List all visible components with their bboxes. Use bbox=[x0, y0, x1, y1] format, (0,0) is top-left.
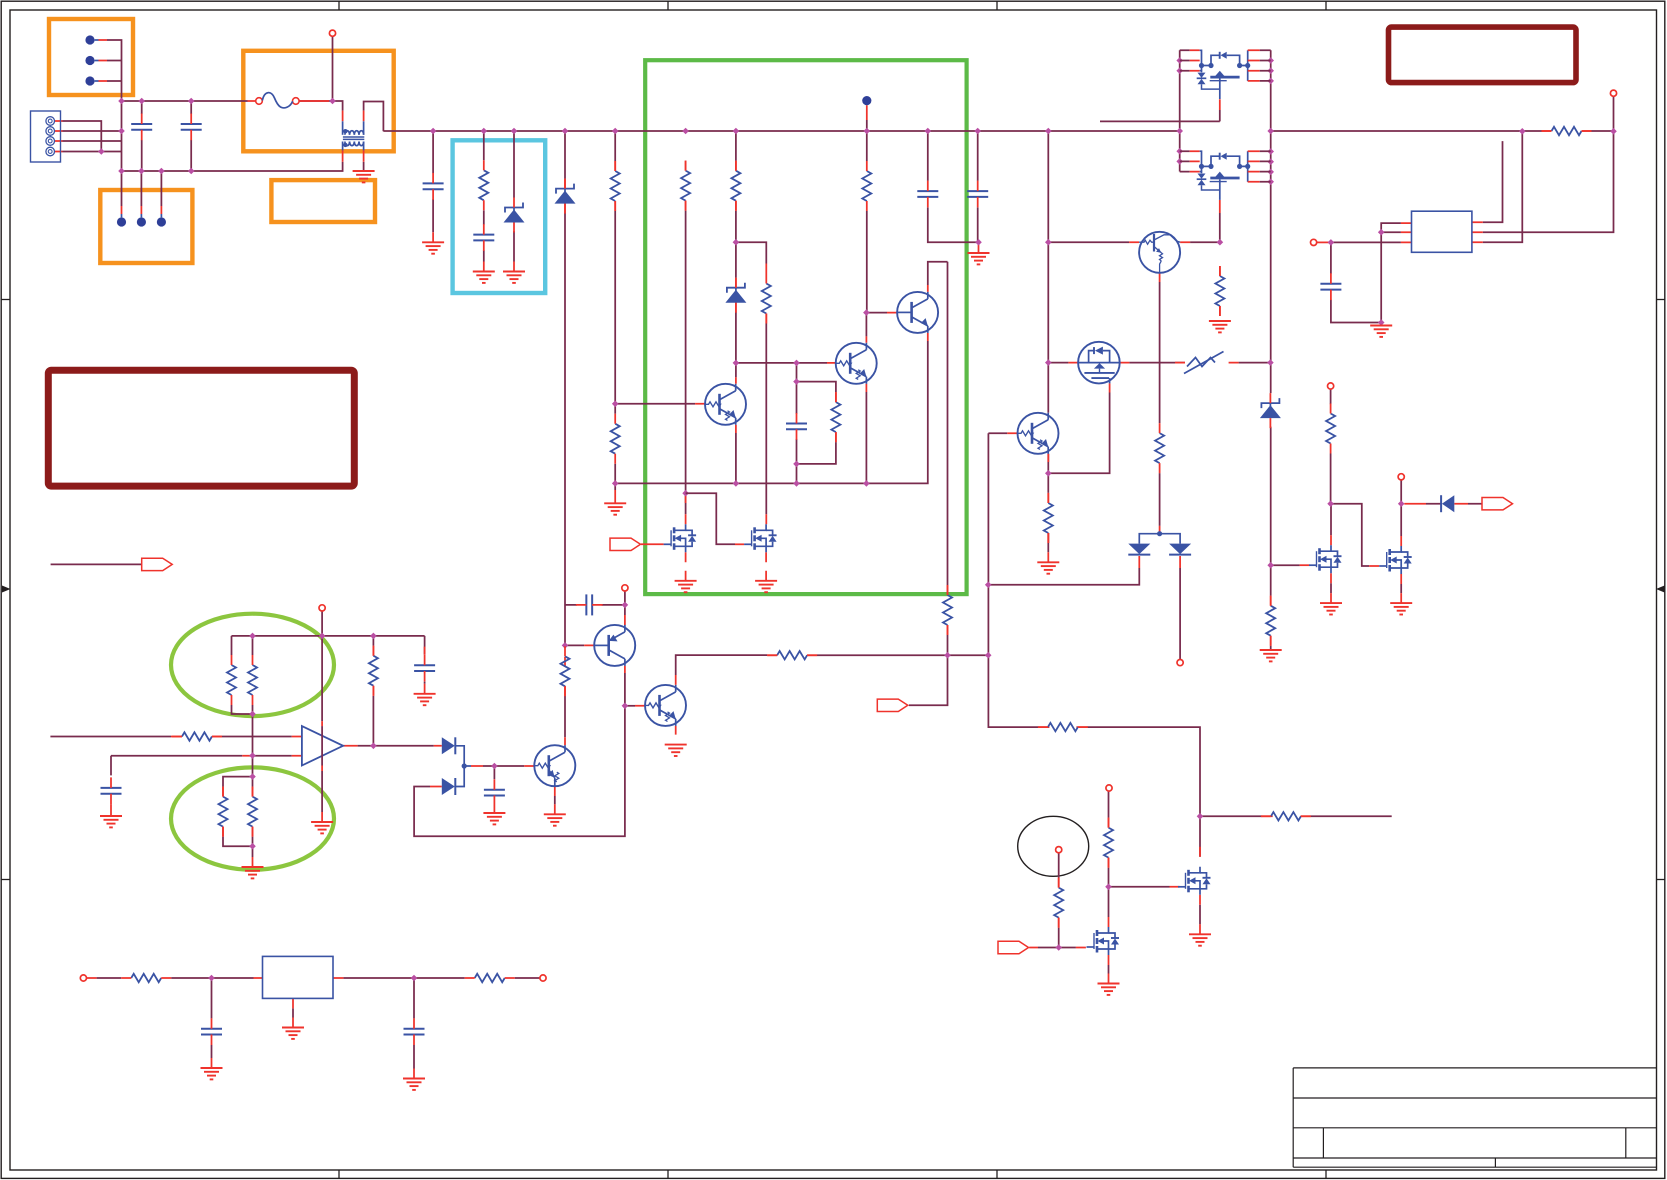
capacitor C9 bbox=[786, 413, 807, 440]
red lower divider stubs bbox=[223, 787, 253, 867]
connector J2 (4-pin) bbox=[31, 111, 61, 162]
red M5 M6 grounds bbox=[686, 552, 767, 581]
wire IC1 left pin3 bbox=[1331, 241, 1401, 243]
wire opamp minus input bbox=[111, 755, 292, 757]
highlight box label bbox=[271, 180, 375, 222]
transistor Q7 bbox=[645, 685, 686, 726]
wire flag SD bbox=[51, 563, 142, 565]
capacitor C3 bbox=[423, 173, 444, 200]
transistor Q3 bbox=[836, 343, 877, 384]
red Q10 leads bbox=[1068, 363, 1129, 393]
wire M4 drain bbox=[1199, 816, 1201, 857]
op-amp U1 bbox=[302, 726, 343, 765]
port flag PG2 bbox=[877, 699, 908, 711]
wire R15 to ground bbox=[1047, 473, 1049, 552]
transformer T1 bbox=[343, 121, 365, 150]
red diode pair out bbox=[471, 765, 483, 767]
red R11 stubs bbox=[564, 657, 566, 696]
wire R9 branch bbox=[736, 242, 766, 514]
ground GND C11 bbox=[403, 1079, 425, 1090]
diode D1 bbox=[442, 737, 456, 754]
red fuse to junction bbox=[299, 100, 329, 102]
wire C3 column bbox=[432, 131, 434, 232]
wire Q6 collector down and D2 loop bbox=[414, 673, 625, 836]
wire IC1 left pin1 bbox=[1381, 223, 1401, 232]
resistor R2b bbox=[219, 787, 228, 837]
wire main DC bus right bbox=[1271, 130, 1614, 132]
transistor Q6 bbox=[594, 625, 635, 666]
ground GND divider bbox=[242, 867, 264, 878]
wire AC bus top bbox=[122, 100, 248, 102]
wire terminal P1 down bbox=[332, 36, 334, 101]
resistor R20 bbox=[1104, 818, 1113, 868]
red C10 C11 stubs bbox=[212, 1058, 415, 1079]
red PG1 to M5 gate bbox=[641, 543, 664, 545]
port flag PO3 bbox=[998, 941, 1029, 953]
MOSFET Q10 bbox=[1078, 342, 1120, 384]
red M1 leads bbox=[1330, 535, 1332, 603]
red pin stubs J1 bbox=[99, 40, 108, 81]
wire cap C1 leads bbox=[141, 101, 143, 171]
ground GND C13 bbox=[968, 253, 990, 264]
wire R6 column bbox=[614, 131, 616, 404]
red bus into fuse bbox=[248, 100, 256, 102]
red Q4 leads bbox=[695, 377, 736, 433]
wire R1-C4 column bbox=[483, 131, 485, 262]
red gate M1 bbox=[1300, 564, 1310, 566]
wire M2 gate link bbox=[1331, 504, 1370, 566]
resistor R1 bbox=[479, 160, 488, 210]
transistor Q4 bbox=[705, 384, 746, 425]
transistor Q2 bbox=[897, 292, 938, 333]
wire IC1 right pin1 bbox=[1483, 141, 1503, 222]
terminal P11 bbox=[1311, 239, 1317, 245]
terminal P1 bbox=[329, 30, 335, 36]
red Q5 leads bbox=[524, 737, 565, 814]
wire Q9 base column bbox=[988, 433, 1200, 816]
ground GND opamp bbox=[311, 822, 333, 833]
wire R13 column bbox=[947, 262, 949, 655]
wire gate MOSFET M1 bbox=[1271, 564, 1300, 566]
red Q6 leads bbox=[584, 615, 625, 673]
regulator U3 bbox=[263, 956, 334, 998]
wire lamp resistor bbox=[1058, 853, 1060, 948]
wire lower divider left bbox=[223, 777, 253, 847]
resistor R9 bbox=[762, 274, 771, 324]
highlight box control circuit (green) bbox=[645, 60, 966, 594]
wire IC1 right pin3 bbox=[1483, 131, 1523, 242]
wire cap C5 branch bbox=[565, 604, 625, 606]
ground GND M1 bbox=[1320, 603, 1342, 614]
resistor R21 bbox=[1261, 812, 1311, 820]
ground GND R17 bbox=[1260, 650, 1282, 661]
red D2 anode stub bbox=[430, 786, 442, 788]
highlight ellipse divider top bbox=[171, 614, 334, 716]
port flag PO2 bbox=[1482, 498, 1513, 510]
red R13 stubs bbox=[947, 585, 949, 635]
ground GND xfmr bbox=[353, 171, 375, 182]
wire R2 down bbox=[232, 636, 253, 714]
wire ref bus bbox=[232, 635, 425, 637]
diode pair cathode link bbox=[1139, 531, 1180, 543]
red FET leads bbox=[1219, 99, 1221, 213]
wire Q3 collector bbox=[865, 313, 867, 337]
wire cap C2 leads bbox=[190, 101, 192, 171]
red M6 gate stub bbox=[735, 543, 744, 545]
wire fuse to transformer bbox=[299, 101, 343, 111]
red R9 stubs bbox=[765, 264, 767, 525]
wire power dot stub bbox=[866, 120, 868, 131]
red opamp supply leads bbox=[321, 721, 323, 822]
zener diode Z2 TVS bbox=[555, 179, 576, 214]
terminal P10 bbox=[1610, 90, 1616, 96]
ground GND R1C4 bbox=[473, 272, 495, 283]
wire C13 column bbox=[977, 131, 979, 242]
title block bbox=[1293, 1068, 1656, 1167]
red Z1 gnd stub bbox=[513, 262, 515, 272]
capacitor C13 bbox=[967, 181, 988, 208]
red polyswitch leads bbox=[1175, 362, 1239, 364]
red D4 D5 bottoms bbox=[1139, 556, 1180, 568]
wire M2 drain-source bbox=[1400, 480, 1402, 593]
resistor R2 bbox=[227, 655, 236, 705]
capacitor C7 bbox=[484, 779, 505, 806]
resistor R3 bbox=[248, 655, 257, 705]
resistor R17 bbox=[1266, 596, 1275, 646]
resistor R15 bbox=[1044, 493, 1053, 543]
port flag PG1 bbox=[610, 538, 641, 550]
highlight box connector group 2 bbox=[100, 190, 192, 263]
terminal P4 bbox=[319, 605, 325, 611]
highlight box EMI filter bbox=[243, 51, 393, 152]
wire connector J1 to bus bbox=[107, 40, 122, 171]
diode D3 bbox=[1441, 495, 1454, 512]
red Z2 stubs bbox=[564, 179, 566, 213]
terminal Plamp bbox=[1056, 847, 1062, 853]
diode D5 bbox=[1169, 544, 1191, 555]
terminal P7 bbox=[1106, 785, 1112, 791]
wire RC network bbox=[797, 363, 836, 484]
red terminal stub P11 bbox=[1317, 241, 1331, 243]
wire M3 source bbox=[1108, 965, 1110, 974]
red C7 gnd stub bbox=[493, 806, 495, 813]
wire Q3 emitter bbox=[865, 392, 867, 483]
wire opamp supply column bbox=[321, 611, 323, 812]
capacitor C8 bbox=[101, 777, 122, 804]
terminal P13 bbox=[1398, 474, 1404, 480]
dual MOSFET pack U2 bottom bbox=[1180, 151, 1271, 200]
wire FET1 source stub bbox=[1100, 110, 1220, 121]
red R6 stubs bbox=[614, 161, 616, 503]
ground GND R15 bbox=[1037, 562, 1059, 573]
wire Q8 emitter long bbox=[1159, 282, 1161, 526]
resistor R12 bbox=[862, 161, 871, 211]
wire Q2 emitter and gate bus bbox=[615, 341, 928, 483]
MOSFET M6 bbox=[744, 524, 777, 552]
wire Q2 base bbox=[866, 312, 887, 314]
resistor R18 bbox=[1326, 404, 1335, 454]
diode D2 bbox=[442, 778, 456, 795]
diode D4 bbox=[1128, 544, 1150, 555]
note box (dark red) top right bbox=[1389, 27, 1577, 83]
resistor R14 bbox=[1038, 723, 1088, 731]
red power dot stub bbox=[866, 105, 868, 120]
terminal PR2 bbox=[540, 975, 546, 981]
capacitor C1 bbox=[131, 114, 152, 141]
wire C8 hang bbox=[110, 756, 112, 776]
wire Q7 collector row bbox=[676, 655, 989, 675]
ground GND M2 bbox=[1390, 603, 1412, 614]
ground GND Q7 bbox=[665, 745, 687, 756]
red pin stubs J2 bbox=[55, 121, 63, 152]
red bus resistor stubs bbox=[1542, 130, 1592, 132]
IC1 box bbox=[1412, 211, 1472, 252]
wire C6 drop bbox=[424, 636, 426, 684]
ground GND C3 bbox=[422, 242, 444, 253]
wire R20 terminal bbox=[1108, 791, 1110, 887]
fuse F1 bbox=[256, 93, 299, 108]
wire Q4 base row bbox=[615, 403, 695, 405]
wire AC return bus bbox=[122, 162, 343, 171]
red R20 stubs bbox=[1108, 818, 1110, 868]
wire terminal P5 column bbox=[624, 591, 626, 615]
note box (dark red) left bbox=[48, 370, 354, 486]
red M2 leads bbox=[1369, 536, 1401, 603]
wire C12 route bbox=[928, 131, 979, 242]
MOSFET M2 bbox=[1379, 546, 1412, 574]
wire R5 feedback bbox=[372, 636, 374, 746]
junction dots all bbox=[98, 57, 1617, 981]
wire FET2 source to base row bbox=[1219, 213, 1221, 242]
capacitor C11 bbox=[404, 1018, 425, 1045]
wire C10 hang bbox=[211, 978, 213, 1058]
red Z4 stubs bbox=[1270, 596, 1272, 646]
red RC leads bbox=[835, 392, 837, 442]
wire regulator output bbox=[343, 977, 540, 979]
resistor R23 bbox=[1155, 423, 1164, 473]
wire regulator input bbox=[97, 977, 254, 979]
wire IC1 left pin2 to ground bbox=[1381, 232, 1401, 325]
wire Q9 collector column bbox=[1047, 131, 1049, 413]
highlight ellipse divider bottom bbox=[171, 767, 334, 869]
wire connector J2 pins bbox=[63, 121, 122, 152]
red sense row stubs bbox=[1263, 815, 1311, 817]
port flag PSD bbox=[142, 558, 173, 570]
wire Q2 collector over bbox=[928, 262, 948, 285]
resistor Rsense bbox=[1542, 127, 1592, 135]
wire Q8 base row bbox=[1048, 241, 1220, 243]
red M4 leads bbox=[1170, 847, 1201, 935]
red C6 stubs bbox=[424, 647, 426, 694]
wire IC1 right pin2 bbox=[1483, 131, 1614, 232]
resistor RR2 bbox=[465, 974, 515, 982]
power node dot bbox=[862, 96, 871, 105]
MOSFET M1 bbox=[1309, 545, 1342, 573]
wire right FET rail bbox=[1270, 50, 1272, 595]
wire R11 column bbox=[564, 696, 566, 737]
wire Q5 base feed bbox=[565, 644, 584, 646]
wire R12 column bbox=[866, 131, 868, 313]
MOSFET M4 bbox=[1178, 867, 1211, 895]
wire reg ground bbox=[292, 1008, 294, 1017]
resistor R6 bbox=[611, 161, 620, 211]
connector J3 pins bbox=[117, 214, 166, 227]
resistor R16 bbox=[1215, 266, 1224, 316]
connector J1 pins bbox=[85, 35, 98, 85]
resistor R4 bbox=[172, 732, 222, 740]
ground GND C6 bbox=[414, 694, 436, 705]
ground GND C10 bbox=[201, 1068, 223, 1079]
wire transformer secondary to ground bbox=[363, 162, 365, 171]
wire R10 column bbox=[614, 404, 616, 490]
MOSFET M5 bbox=[664, 524, 697, 552]
highlight box connector group 1 bbox=[49, 19, 133, 95]
red R14h stubs bbox=[1039, 726, 1086, 728]
wire R8 Z3 column bbox=[735, 131, 737, 363]
capacitor C14 bbox=[1320, 273, 1341, 300]
wire C7 hang bbox=[493, 766, 495, 779]
resistor Rrc bbox=[831, 392, 840, 442]
polyswitch F2 bbox=[1184, 352, 1224, 374]
zener diode Z3 bbox=[725, 278, 746, 313]
red C13 gnd stub bbox=[978, 242, 980, 253]
resistor R19 bbox=[1054, 878, 1063, 928]
red opamp out stub bbox=[343, 745, 442, 747]
red Q7 row leads bbox=[635, 655, 817, 734]
wire opamp supply through bbox=[321, 726, 323, 765]
wire Q9 base lead bbox=[988, 432, 1007, 434]
wire gate drive port column bbox=[909, 655, 948, 705]
ground GND M5 bbox=[675, 581, 697, 592]
capacitor C4 bbox=[473, 224, 494, 251]
wire opamp out bbox=[358, 745, 434, 747]
wire divider middle column bbox=[252, 714, 254, 777]
ground GND R10 bbox=[604, 503, 626, 514]
wire connector J3 stubs bbox=[122, 171, 162, 206]
red Q3 leads bbox=[827, 336, 866, 392]
ground GND R16 bbox=[1209, 321, 1231, 332]
wire Q4 emitter bbox=[735, 433, 737, 483]
wire Q7 base bbox=[625, 705, 635, 707]
MOSFET M3 bbox=[1087, 927, 1120, 955]
red reg leads bbox=[87, 978, 344, 1028]
terminal P6 bbox=[622, 585, 628, 591]
resistor R5 bbox=[369, 646, 378, 696]
wire left FET rail bbox=[1179, 50, 1181, 171]
resistor R7 bbox=[681, 161, 690, 211]
wire M4 gate row bbox=[1109, 886, 1170, 888]
capacitor C5 bbox=[576, 594, 603, 615]
wire R17 bottom bbox=[1270, 646, 1272, 650]
resistor R3b bbox=[248, 787, 257, 837]
red port stubs bbox=[1029, 947, 1086, 949]
wire M1 drain-source bbox=[1330, 504, 1332, 593]
red transformer leads bbox=[343, 111, 364, 162]
red lamp stubs bbox=[1058, 878, 1060, 928]
wire R7 to M5 drain bbox=[685, 211, 687, 515]
red R1C4 stubs bbox=[483, 262, 485, 272]
marker ellipse (black) bbox=[1018, 816, 1089, 876]
red J3 stubs bbox=[122, 206, 162, 214]
wire Q10 gate row bbox=[1048, 362, 1270, 364]
wire port to M3 gate bbox=[1038, 947, 1076, 949]
red R15 stubs bbox=[1047, 493, 1049, 562]
red C3 gnd stub bbox=[432, 232, 434, 242]
capacitor C6 bbox=[414, 655, 435, 682]
wire M6 gate route bbox=[686, 493, 735, 544]
ground GND Z1 bbox=[503, 272, 525, 283]
dual MOSFET pack U2 top bbox=[1180, 50, 1271, 99]
transistor Q9 bbox=[1018, 413, 1059, 454]
red R5 stubs bbox=[372, 646, 374, 696]
ground GND M4 bbox=[1189, 934, 1211, 945]
wire lower divider right bbox=[252, 777, 254, 857]
transistor Q8 (darlington) bbox=[1139, 232, 1180, 273]
wire output terminal bbox=[1613, 96, 1615, 131]
resistor R8 bbox=[731, 161, 740, 211]
red M3 leads bbox=[1108, 917, 1110, 984]
red Q9 leads bbox=[1007, 433, 1048, 462]
resistor RR1 bbox=[121, 974, 171, 982]
wire Q5 base bbox=[483, 765, 524, 767]
capacitor C2 bbox=[181, 114, 202, 141]
resistor R10 bbox=[611, 414, 620, 464]
red opamp in leads bbox=[171, 737, 302, 756]
wire transformer primary out bbox=[364, 102, 384, 132]
wire Q9 emitter junction bbox=[1048, 393, 1109, 474]
resistor R22 bbox=[767, 651, 817, 659]
red Z3 stubs bbox=[735, 278, 737, 312]
red C8 gnd stub bbox=[110, 804, 112, 816]
ground GND reg bbox=[282, 1028, 304, 1039]
wire R3 down bbox=[252, 636, 254, 714]
wire main DC bus bbox=[383, 130, 1179, 132]
wire sense row bbox=[1200, 815, 1392, 817]
wire R18 column bbox=[1330, 389, 1332, 504]
wire M4 source bbox=[1199, 905, 1201, 925]
wire D4 cathode to base column bbox=[988, 568, 1139, 585]
capacitor C12 bbox=[917, 181, 938, 208]
wire C11 hang bbox=[413, 978, 415, 1069]
red Q2 leads bbox=[887, 285, 928, 341]
red R8 stubs bbox=[735, 161, 737, 211]
ground GND Q5 bbox=[544, 814, 566, 825]
wire M3 drain bbox=[1108, 887, 1110, 917]
zener diode Z4 bbox=[1260, 393, 1281, 428]
ground GND M6 bbox=[755, 581, 777, 592]
wire Z2 column bbox=[564, 131, 566, 645]
diode D1 D2 cathode link bbox=[456, 746, 472, 787]
transistor Q5 bbox=[534, 745, 575, 786]
resistor R11 bbox=[561, 646, 570, 696]
red R16 stubs bbox=[1219, 266, 1221, 316]
ground GND IC1 bbox=[1370, 326, 1392, 337]
ground GND C8 bbox=[100, 816, 122, 827]
terminal P12 bbox=[1328, 383, 1334, 389]
wire opamp plus input bbox=[50, 736, 291, 738]
ground GND C7 bbox=[483, 813, 505, 824]
wire base row Q3 bbox=[736, 362, 827, 364]
resistor R13 bbox=[943, 585, 952, 635]
red D3 row leads bbox=[1404, 503, 1468, 505]
wire D5 cathode to terminal bbox=[1179, 568, 1181, 659]
wire D3 row bbox=[1426, 503, 1482, 505]
wire Q5 emitter bbox=[554, 796, 556, 804]
red IC1 pin stubs bbox=[1401, 222, 1483, 242]
highlight box snubber (cyan) bbox=[453, 140, 546, 293]
red Q8 leads bbox=[1129, 242, 1190, 531]
wire Z1 column bbox=[513, 131, 515, 262]
